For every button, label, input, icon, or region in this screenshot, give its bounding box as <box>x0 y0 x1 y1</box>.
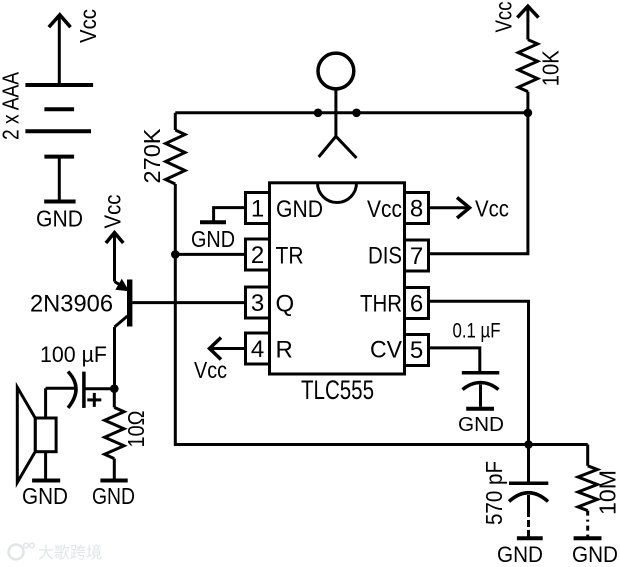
svg-text:Vcc: Vcc <box>194 357 227 383</box>
svg-text:8: 8 <box>410 196 423 223</box>
node left hand <box>314 109 323 118</box>
svg-text:3: 3 <box>251 290 264 317</box>
svg-text:1: 1 <box>251 196 264 223</box>
wire 10M bottom dashed <box>586 511 589 537</box>
capacitor C1 100uF <box>68 372 76 408</box>
svg-text:100 µF: 100 µF <box>40 342 107 367</box>
svg-text:GND: GND <box>497 542 543 567</box>
svg-text:GND: GND <box>36 206 83 232</box>
svg-text:Q: Q <box>276 291 295 318</box>
svg-text:4: 4 <box>251 336 264 363</box>
svg-text:GND: GND <box>22 483 68 509</box>
svg-text:DIS: DIS <box>368 243 402 270</box>
pin 6 box <box>405 288 429 319</box>
wire 10K to junction <box>526 92 529 113</box>
svg-text:Vcc: Vcc <box>75 9 101 43</box>
pin 4 box <box>246 333 270 364</box>
svg-text:2N3906: 2N3906 <box>30 291 113 318</box>
ground battery <box>44 200 75 204</box>
svg-text:Vcc: Vcc <box>475 195 509 221</box>
plus sign <box>87 393 101 407</box>
speaker SP1 <box>35 418 56 452</box>
svg-text:5: 5 <box>410 337 423 364</box>
ground speaker <box>32 479 60 483</box>
svg-text:0.1 µF: 0.1 µF <box>453 320 501 343</box>
transistor Q1 2N3906 <box>127 280 132 327</box>
Vcc arrow pin4 reset <box>211 347 246 350</box>
touch person stick figure <box>318 53 354 89</box>
node collector junction <box>110 384 119 393</box>
svg-text:Vcc: Vcc <box>491 2 517 33</box>
capacitor C3 570pF <box>527 445 530 484</box>
pin 1 box <box>246 193 270 224</box>
wire 10ohm top lead <box>113 389 116 408</box>
wire pin6 THR to bottom junction <box>429 301 529 444</box>
pin 3 box <box>246 287 270 318</box>
ground 570pF <box>517 536 543 540</box>
svg-text:6: 6 <box>410 291 423 318</box>
pin 5 box <box>405 335 429 366</box>
svg-text:7: 7 <box>410 243 423 270</box>
Vcc arrow pin8 <box>429 206 469 209</box>
svg-text:TLC555: TLC555 <box>301 375 374 405</box>
watermark <box>9 543 103 562</box>
svg-text:2: 2 <box>251 242 264 269</box>
ground pin1 <box>214 208 246 222</box>
wire pin5 CV to cap <box>429 348 480 371</box>
node right hand <box>352 109 361 118</box>
svg-text:10M: 10M <box>595 470 620 515</box>
ground 0.1uF <box>466 407 494 411</box>
node 10K junction <box>524 109 533 118</box>
svg-text:CV: CV <box>370 337 402 364</box>
pin 7 box <box>405 240 429 271</box>
svg-text:2 x AAA: 2 x AAA <box>0 71 24 140</box>
Vcc arrow battery <box>58 16 61 85</box>
svg-text:10Ω: 10Ω <box>123 411 149 448</box>
wire 270K junction down to bottom rail <box>175 254 587 444</box>
wire collector down <box>113 327 116 389</box>
svg-text:R: R <box>276 337 293 364</box>
Vcc arrow 10K <box>526 8 529 40</box>
wire 270K bottom lead <box>174 184 177 254</box>
capacitor C2 0.1uF <box>462 371 500 375</box>
svg-text:570 pF: 570 pF <box>481 461 507 525</box>
wire 10ohm bottom <box>113 459 116 479</box>
svg-text:大歌跨境: 大歌跨境 <box>38 543 102 562</box>
svg-text:THR: THR <box>360 291 402 318</box>
Vcc arrow transistor emitter <box>113 234 116 282</box>
svg-text:TR: TR <box>276 243 304 270</box>
svg-text:GND: GND <box>276 196 323 223</box>
wire battery negative lead <box>58 157 61 200</box>
node bottom junction <box>524 440 533 449</box>
wire speaker bottom <box>44 452 47 479</box>
svg-text:GND: GND <box>191 226 235 252</box>
op IC U1 TLC555 body <box>270 183 405 374</box>
battery B1 2xAAA plates <box>25 85 93 157</box>
resistor R2 10K <box>518 40 537 92</box>
resistor R1 270K <box>166 130 185 184</box>
svg-text:10K: 10K <box>538 50 564 87</box>
svg-text:270K: 270K <box>139 128 165 184</box>
node TR junction <box>171 250 180 259</box>
resistor R3 10 ohm <box>105 407 124 458</box>
resistor R4 10M <box>586 445 589 466</box>
ground 10ohm <box>100 479 127 483</box>
wire 270K top lead <box>174 113 177 130</box>
wire touch-plate net <box>175 111 528 114</box>
svg-text:Vcc: Vcc <box>367 196 402 223</box>
svg-text:Vcc: Vcc <box>100 195 126 229</box>
pin 8 box <box>405 193 429 224</box>
wire pin2 TR <box>175 253 245 256</box>
pin 2 box <box>246 239 270 270</box>
svg-text:GND: GND <box>572 542 618 567</box>
ground 10M <box>574 536 602 540</box>
svg-text:GND: GND <box>92 483 135 509</box>
wire pin3 Q to base <box>132 301 245 304</box>
wire pin7 DIS to 10K junction <box>429 113 528 254</box>
IC notch <box>318 183 357 203</box>
svg-text:GND: GND <box>458 414 504 436</box>
